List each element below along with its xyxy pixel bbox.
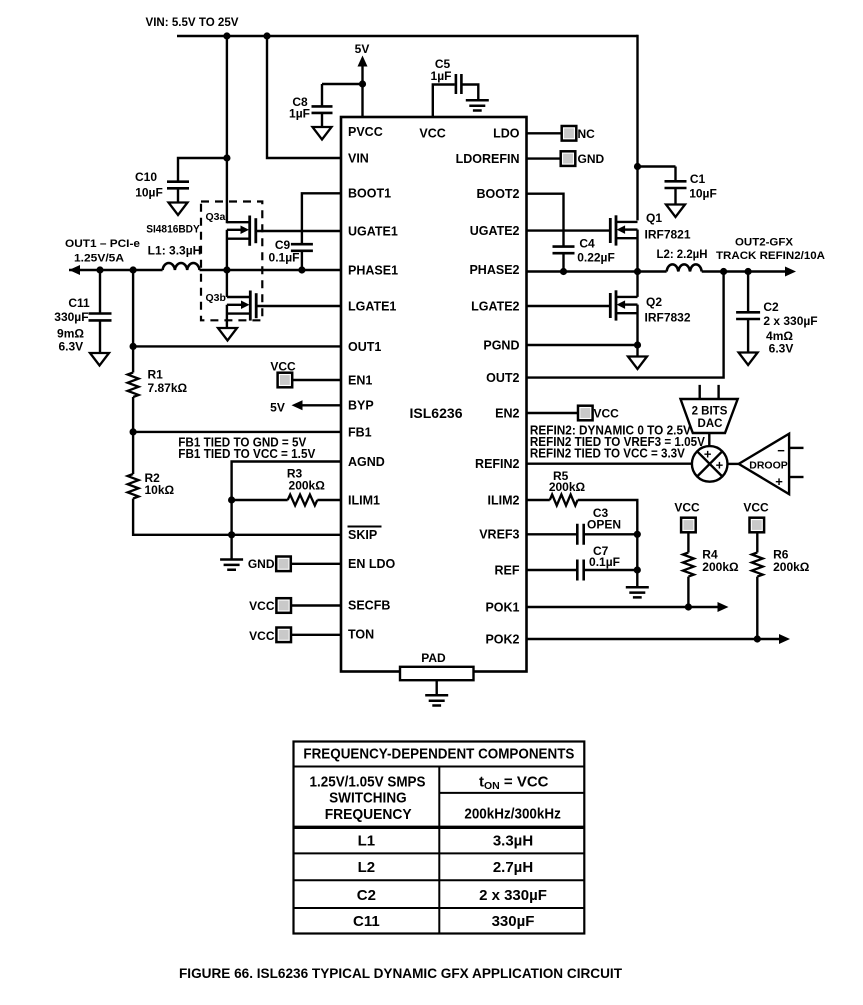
inductor L2 [667,264,702,271]
wire Q1 source to PHASE2 [636,230,638,272]
svg-text:1.25V/1.05V SMPS: 1.25V/1.05V SMPS [310,774,426,791]
capacitor C2 [736,312,760,319]
junction PHASE1/Q3 [223,266,230,273]
svg-text:C11: C11 [68,296,90,310]
svg-text:OUT2-GFX: OUT2-GFX [735,237,794,249]
wire C10 to ground [177,188,179,203]
node mixer X [697,451,722,476]
wire R1 top [132,270,134,373]
svg-text:Q3a: Q3a [206,211,226,223]
wire C3 to gnd column [585,533,638,535]
svg-text:2 x 330µF: 2 x 330µF [763,314,817,328]
ground C2 (triangle) [739,353,758,366]
ground C10 (triangle) [169,203,188,216]
svg-text:SKIP: SKIP [348,528,377,542]
wire UGATE1 to Q3a gate [256,230,341,232]
transistor Q2 channel [615,290,618,320]
svg-text:Q3b: Q3b [206,292,226,304]
svg-text:+: + [716,457,724,472]
svg-text:0.1µF: 0.1µF [589,555,620,569]
terminal VCC TON [276,628,291,643]
svg-text:0.1µF: 0.1µF [269,251,300,265]
wire C2 to ground [747,319,749,353]
wire C10 branch [178,158,228,181]
node BYP arrow [292,400,303,410]
svg-text:UGATE2: UGATE2 [470,224,520,238]
capacitor C9 [291,244,313,251]
junction R4/POK1 [685,603,692,610]
svg-text:PHASE2: PHASE2 [469,263,519,277]
svg-text:VCC: VCC [594,407,620,421]
svg-text:ILIM1: ILIM1 [348,493,380,507]
capacitor C5 [456,74,462,94]
svg-text:OUT1 – PCI-e: OUT1 – PCI-e [65,238,140,250]
wire C7 to gnd column [585,569,638,571]
node POK1 arrow [718,602,729,612]
transistor Q3a channel [248,216,251,246]
svg-text:OUT2: OUT2 [486,371,519,385]
svg-text:7.87kΩ: 7.87kΩ [148,381,188,395]
svg-text:TRACK REFIN2/10A: TRACK REFIN2/10A [716,250,825,262]
ground R5/C3/C7 (bars) [626,587,649,597]
resistor R4 [683,553,694,577]
svg-text:200kΩ: 200kΩ [773,560,810,574]
wire DAC inputs [700,385,719,398]
capacitor C8 [312,106,333,113]
svg-text:AGND: AGND [348,455,385,469]
transistor Q1 channel [615,215,618,245]
svg-text:GND: GND [248,557,275,571]
junction OUT1/R1 [130,343,137,350]
wire Q2 source to ground [636,305,638,357]
wire C4 to PHASE2 [562,253,564,271]
dac 2-bits trapezoid [681,399,738,433]
wire REF to C7 [527,569,577,571]
transistor Q3a source stub [227,237,249,239]
svg-text:GND: GND [578,152,605,166]
ground C8 (triangle) [313,127,332,140]
resistor R6 [752,553,763,577]
wire C8 to ground [321,113,323,128]
junction FB1 node [130,428,137,435]
terminal VCC R6 [750,518,765,533]
transistor Q3b source arrow [227,304,243,306]
capacitor C4 [553,247,575,254]
svg-text:VCC: VCC [249,599,275,613]
wire FB1 line [133,431,341,433]
svg-text:PGND: PGND [483,338,519,352]
ground C1 (triangle) [666,205,685,218]
svg-text:3.3µH: 3.3µH [493,832,533,849]
wire OUT2 return to pin [527,272,724,378]
wire C11 to ground [99,320,101,353]
resistor R3 [288,495,318,506]
wire POK2 line [527,638,783,640]
svg-text:L2: 2.2µH: L2: 2.2µH [657,249,708,261]
wire R3 left [232,499,288,501]
svg-text:SECFB: SECFB [348,598,390,612]
svg-text:2 x 330µF: 2 x 330µF [479,887,547,904]
junction VIN rail / VIN pin [263,32,270,39]
wire EN2 [527,412,579,414]
svg-text:10µF: 10µF [689,187,717,201]
capacitor C11 [89,314,112,321]
svg-text:1.25V/5A: 1.25V/5A [74,253,124,265]
wire Q3a drain drop [226,35,228,224]
wire R4 top [687,532,689,553]
svg-text:C1: C1 [690,172,706,186]
capacitor C10 [167,182,189,189]
wire LGATE1 to Q3b gate [256,305,341,307]
wire PGND line [527,344,638,346]
svg-text:C11: C11 [353,913,380,930]
wire VIN rail [177,35,638,37]
svg-text:330µF: 330µF [492,913,535,930]
svg-text:200kHz/300kHz: 200kHz/300kHz [464,806,561,823]
transistor Q3a drain stub [227,221,249,223]
svg-text:PVCC: PVCC [348,125,383,139]
transistor Q1 source arrow [624,228,638,230]
svg-text:BOOT2: BOOT2 [476,187,519,201]
junction AGND/R3 [228,496,235,503]
wire C1 branch [638,167,676,182]
svg-text:VCC: VCC [743,501,769,515]
svg-text:FREQUENCY: FREQUENCY [325,806,412,823]
svg-text:200kΩ: 200kΩ [702,560,739,574]
junction OUT2/C2 [745,268,752,275]
svg-text:1µF: 1µF [289,107,310,121]
wire LDO [527,132,563,134]
wire VREF3 to C3 [527,533,577,535]
svg-text:C4: C4 [579,237,595,251]
svg-text:PHASE1: PHASE1 [348,263,398,277]
wire droop fb bottom [789,476,803,478]
svg-text:2.7µH: 2.7µH [493,859,533,876]
svg-text:IRF7821: IRF7821 [645,228,691,242]
capacitor C1 [665,181,687,188]
node mixer circle [692,446,728,482]
capacitor C3 [577,524,583,545]
wire AGND line [232,462,341,560]
svg-text:FIGURE 66. ISL6236 TYPICAL DY: FIGURE 66. ISL6236 TYPICAL DYNAMIC GFX A… [179,966,622,982]
svg-text:DROOP: DROOP [749,459,788,471]
transistor Q2 source arrow [624,303,638,305]
wire PAD to ground [436,680,438,695]
junction C4/PHASE2 [560,268,567,275]
transistor Q2 source stub [616,312,637,314]
wire BYP [301,404,341,406]
svg-text:UGATE1: UGATE1 [348,224,398,238]
svg-text:LDO: LDO [493,127,520,141]
svg-text:REF: REF [495,563,520,577]
wire Q3a source to PHASE1 [226,230,228,270]
svg-text:200kΩ: 200kΩ [289,479,326,493]
svg-text:SWITCHING: SWITCHING [329,790,407,807]
svg-text:C2: C2 [357,887,376,904]
svg-text:VCC: VCC [249,629,275,643]
junction PHASE1/C9 [298,266,305,273]
inductor L1 [163,263,200,270]
svg-text:DAC: DAC [698,418,723,430]
svg-text:VCC: VCC [674,501,700,515]
svg-text:1µF: 1µF [431,69,452,83]
wire R2 top [132,432,134,474]
junction C3 node [634,531,641,538]
svg-text:LDOREFIN: LDOREFIN [456,152,520,166]
transistor Q3b source stub [227,312,250,314]
svg-text:FREQUENCY-DEPENDENT COMPONENTS: FREQUENCY-DEPENDENT COMPONENTS [303,746,574,763]
svg-text:VREF3: VREF3 [479,528,519,542]
svg-text:POK1: POK1 [485,600,519,614]
wire LDOREFIN [527,157,562,159]
wire mixer to droop [728,463,739,465]
wire OUT2 line [702,270,787,272]
ground Q3b (triangle) [218,328,237,341]
node OUT1 arrow [69,265,80,275]
op-amp DROOP triangle [739,434,789,494]
transistor Q2 drain [616,272,637,297]
ground Q2 (triangle) [628,357,647,370]
svg-text:ISL6236: ISL6236 [410,406,463,421]
transistor Q3a gate bar [254,218,257,243]
svg-text:REFIN2: REFIN2 [475,457,520,471]
svg-text:EN1: EN1 [348,373,372,387]
pad PAD rectangle [400,667,474,680]
svg-text:10µF: 10µF [135,186,163,200]
wire POK1 line [527,606,721,608]
ground AGND (bars) [220,560,243,570]
svg-text:5V: 5V [270,400,285,414]
svg-text:6.3V: 6.3V [58,340,83,354]
svg-text:−: − [777,443,785,458]
wire SECFB [291,604,341,606]
svg-text:Q1: Q1 [646,211,662,225]
svg-text:6.3V: 6.3V [769,342,794,356]
wire R6 to POK2 [756,577,758,639]
node 5V arrow (PVCC) [358,56,368,67]
terminal VCC R4 [681,518,696,533]
terminal VCC SECFB [276,598,291,613]
wire C8 branch [322,84,363,106]
wire REFIN2 line [527,463,693,465]
transistor Q3 dashed outline [201,202,262,321]
svg-text:2 BITS: 2 BITS [692,406,728,418]
wire C9 to PHASE1 [301,251,303,270]
svg-text:PAD: PAD [421,651,446,665]
svg-text:+: + [704,447,712,462]
transistor Q1 gate bar [609,218,612,243]
svg-text:FB1: FB1 [348,425,372,439]
wire LGATE2 to Q2 gate [527,305,611,307]
svg-text:330µF: 330µF [54,310,88,324]
ground C11 (triangle) [90,353,109,366]
svg-text:0.22µF: 0.22µF [577,251,615,265]
svg-text:L2: L2 [358,859,376,876]
transistor Q3a source arrow [227,229,242,231]
svg-text:FB1 TIED TO VCC = 1.5V: FB1 TIED TO VCC = 1.5V [178,447,316,461]
wire R4 to POK1 [687,577,689,607]
table frame [294,742,585,934]
svg-text:SI4816BDY: SI4816BDY [146,224,200,236]
transistor Q1 source stub [616,237,637,239]
junction C7 node [634,566,641,573]
ground PAD (bars) [425,695,448,705]
svg-text:VCC: VCC [419,127,445,141]
wire UGATE2 to Q1 gate [527,229,611,231]
wire VIN rail right drop to Q1 drain [636,35,638,221]
junction PHASE1/C11 [96,266,103,273]
svg-text:LGATE2: LGATE2 [471,299,519,313]
svg-text:IRF7832: IRF7832 [645,311,691,325]
wire R3 to ILIM1 [317,499,341,501]
svg-text:EN2: EN2 [495,406,519,420]
terminal GND EN-LDO [276,557,291,572]
resistor R5 [550,495,578,506]
wire Q3b source to ground [226,305,228,329]
svg-text:REFIN2 TIED TO VCC = 3.3V: REFIN2 TIED TO VCC = 3.3V [530,447,686,461]
wire BOOT1 to C9 [302,193,341,244]
transistor Q2 gate bar [609,293,612,318]
svg-text:VIN: VIN [348,151,369,165]
svg-text:POK2: POK2 [485,632,519,646]
svg-text:10kΩ: 10kΩ [145,483,175,497]
svg-text:NC: NC [578,127,596,141]
wire VCC stub [433,85,455,118]
svg-text:BYP: BYP [348,399,374,413]
junction PGND [634,341,641,348]
terminal VCC (EN2) [578,406,593,421]
svg-text:ILIM2: ILIM2 [488,493,520,507]
junction R6/POK2 [754,635,761,642]
svg-text:VIN: 5.5V TO 25V: VIN: 5.5V TO 25V [146,15,239,29]
wire PHASE1 line [200,269,342,271]
wire C11 branch [99,270,101,314]
wire TON [291,634,341,636]
svg-text:C10: C10 [135,170,157,184]
node OUT2 arrow [785,267,796,277]
wire EN1 [292,379,341,381]
wire C5 to ground [462,85,478,101]
terminal NC (LDO) [562,126,577,141]
wire R2 to SKIP [133,499,341,535]
wire ILIM2 to R5 [527,499,550,501]
svg-text:C2: C2 [763,300,779,314]
ground C5 (bars) [466,100,489,110]
wire droop fb top [789,447,803,449]
wire OUT1 pin line [133,345,341,347]
wire OUT1 line [69,269,163,271]
transistor Q3b channel [249,291,252,321]
junction AGND/SKIP [228,531,235,538]
wire DAC to mixer [708,433,710,446]
transistor Q3b gate bar [255,293,258,318]
svg-text:200kΩ: 200kΩ [549,480,586,494]
junction C10 tap [223,154,230,161]
wire PHASE2 line [527,270,667,272]
svg-text:OPEN: OPEN [587,517,621,531]
svg-text:BOOT1: BOOT1 [348,187,391,201]
junction PHASE2/Q1Q2 [634,268,641,275]
transistor Q3b drain [227,270,250,297]
junction PHASE1/R1 [130,266,137,273]
svg-text:9mΩ: 9mΩ [57,326,84,340]
wire VIN pin feed [267,35,341,158]
wire C2 branch [747,272,749,313]
wire C1 to ground [674,188,676,205]
wire R6 top [756,532,758,553]
resistor R1 [128,373,139,398]
wire PVCC stub [361,66,363,117]
junction VIN rail / Q3a drain [223,32,230,39]
wire R1 to FB1 [132,397,134,432]
terminal GND (LDOREFIN) [561,151,576,166]
wire R5 to gnd column [578,500,638,587]
svg-text:TON: TON [348,627,374,641]
svg-text:VCC: VCC [270,360,296,374]
junction OUT2 return [720,268,727,275]
svg-text:5V: 5V [355,42,370,56]
svg-text:R1: R1 [148,368,164,382]
svg-text:OUT1: OUT1 [348,340,381,354]
transistor Q1 drain stub [616,221,637,223]
node POK2 arrow [779,634,790,644]
resistor R2 [128,474,139,499]
op-amp U1 ISL6236 body [341,117,527,672]
svg-text:L1: L1 [358,832,376,849]
svg-text:+: + [775,474,783,489]
junction PVCC/C8 [359,80,366,87]
junction VIN/C1 [634,163,641,170]
svg-text:Q2: Q2 [646,295,662,309]
terminal VCC EN1 [278,373,293,388]
svg-text:EN LDO: EN LDO [348,557,396,571]
capacitor C7 [577,560,583,581]
svg-text:L1: 3.3µH: L1: 3.3µH [148,246,202,258]
wire BOOT2 to C4 [527,194,564,247]
svg-text:LGATE1: LGATE1 [348,299,396,313]
wire EN LDO [291,563,341,565]
